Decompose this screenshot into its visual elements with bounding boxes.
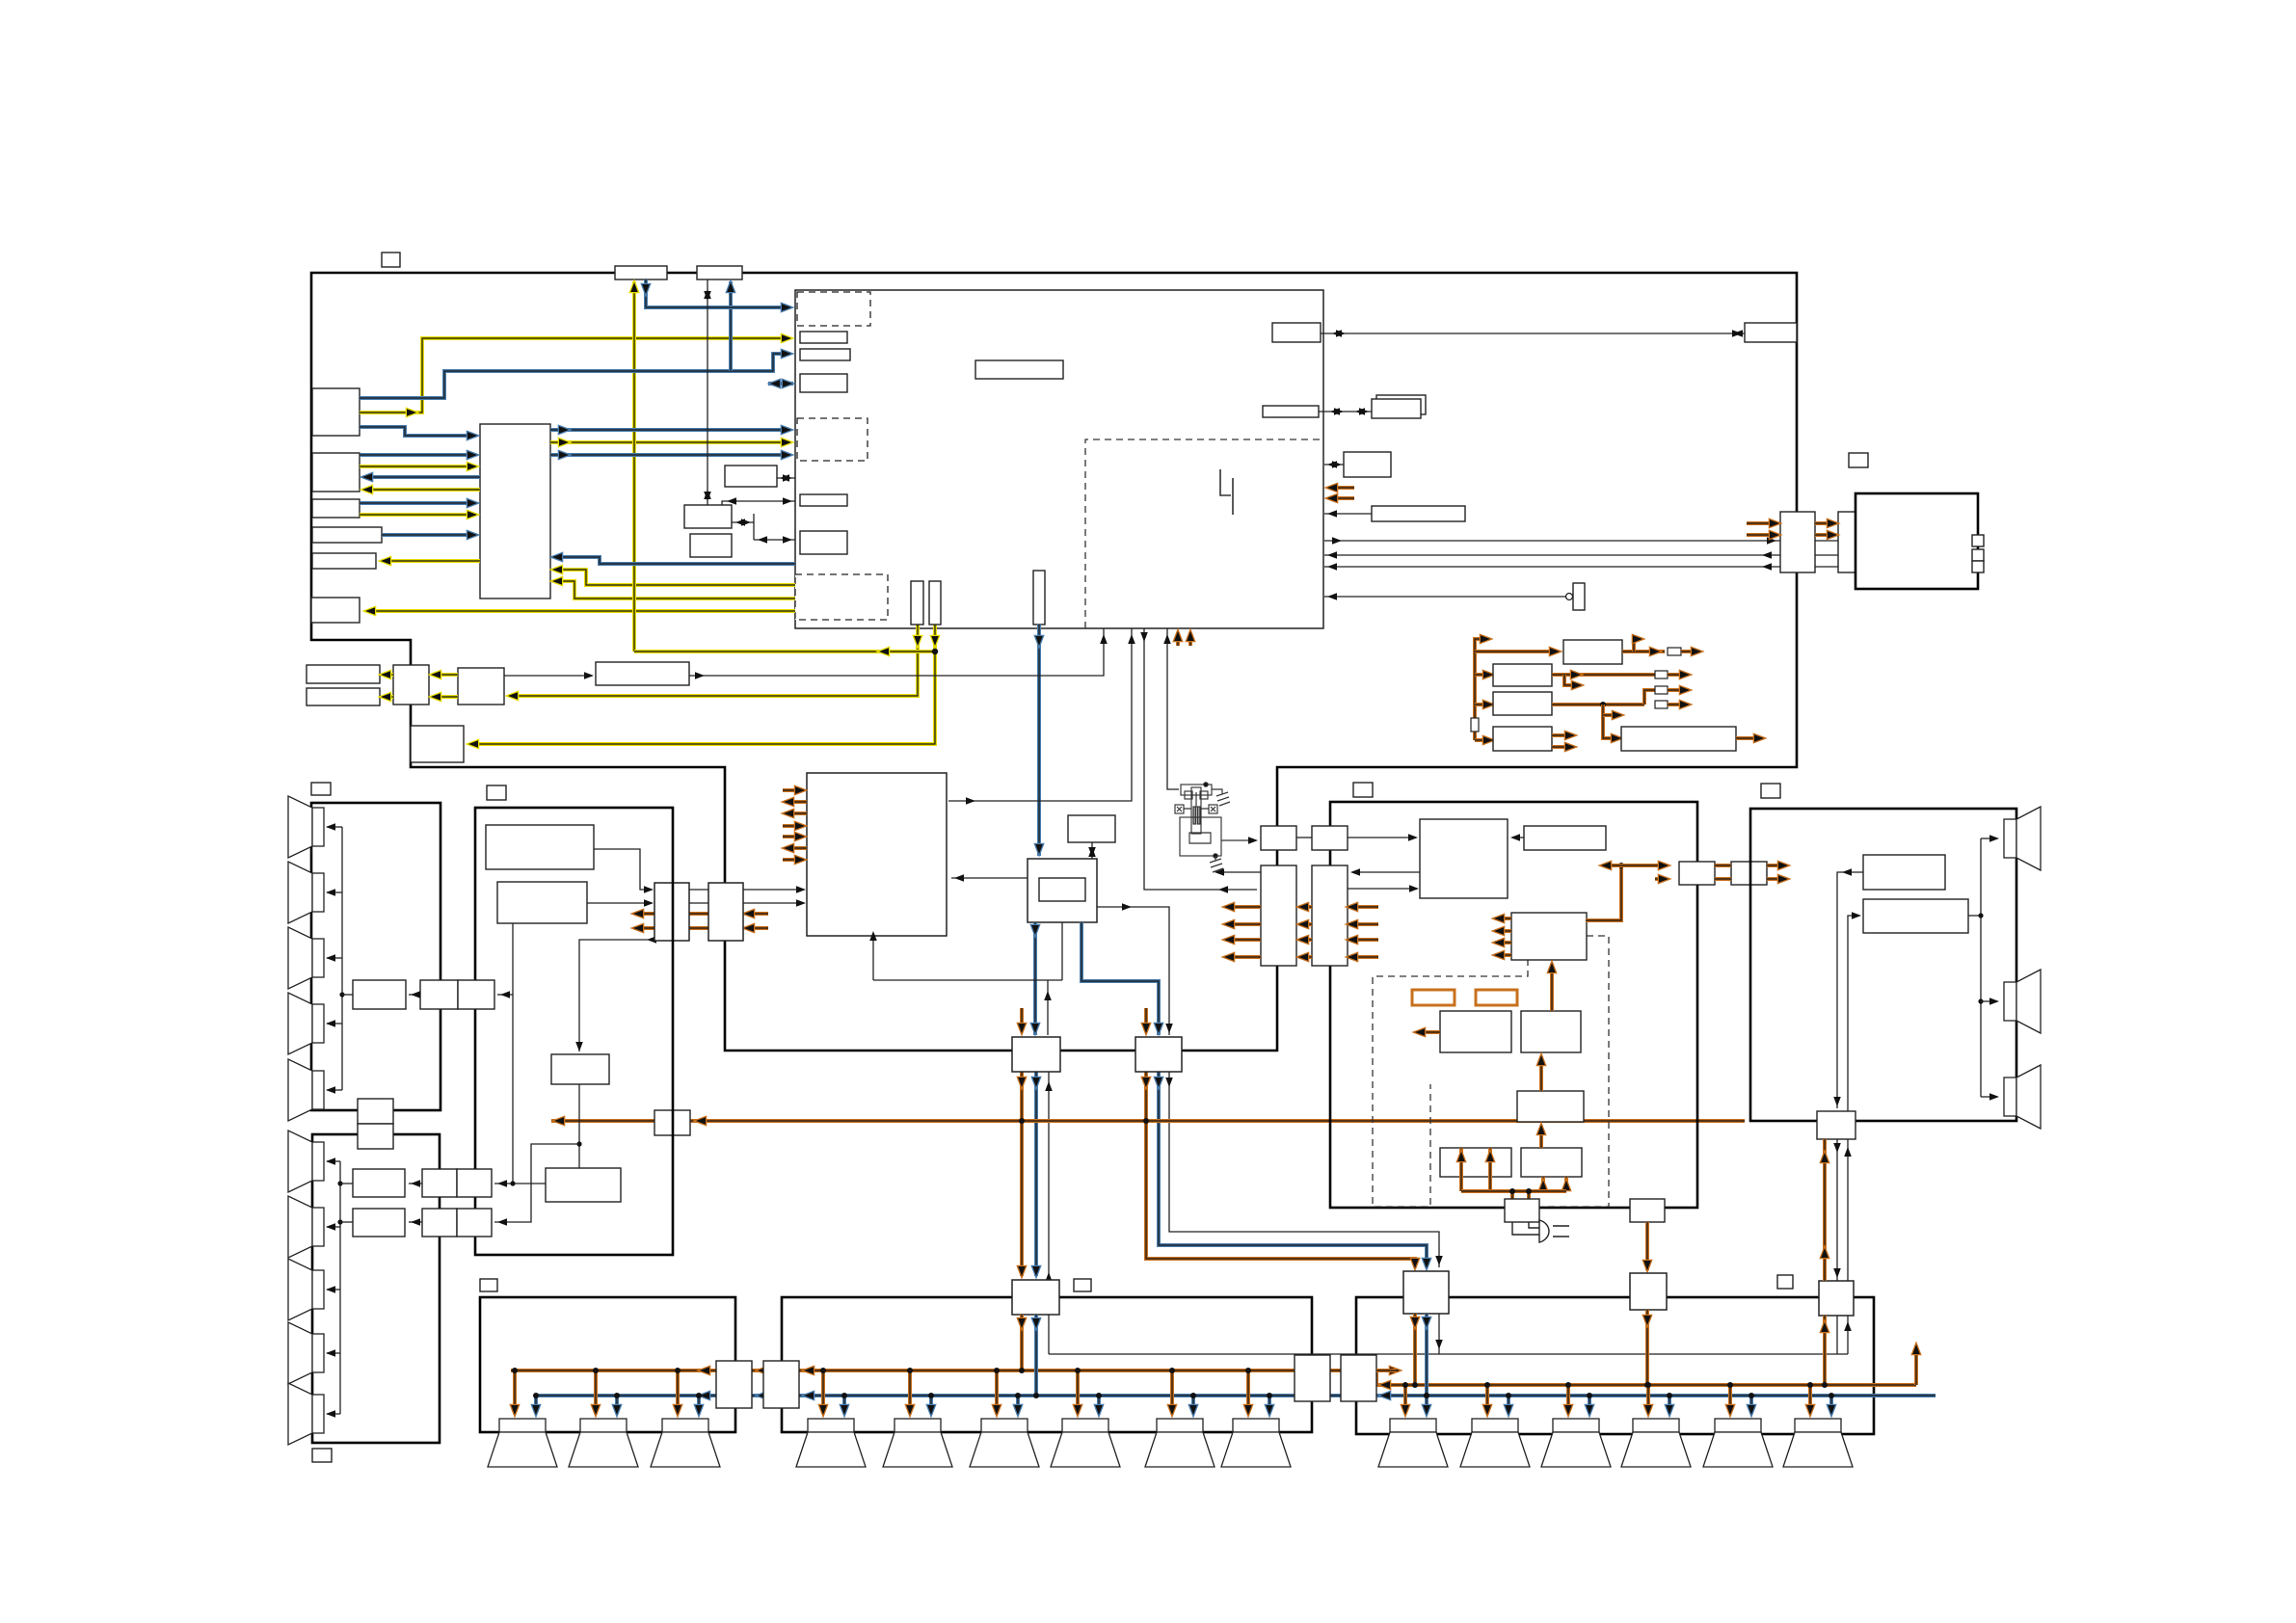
junction L1 x355: [339, 992, 344, 997]
arrow orange up S3C2: [1537, 1055, 1545, 1065]
section J outline (bottom center bank): [782, 1297, 1312, 1432]
orange stub DSP in y857: [783, 824, 803, 828]
speaker SP-F5 (left): [288, 1383, 324, 1445]
arrow yellow y459 a: [559, 439, 569, 446]
wire L2 tap 3: [327, 1289, 340, 1290]
blue drop SP-J3: [1016, 1396, 1020, 1413]
arrow blue into control box: [1035, 844, 1043, 854]
wire L1 feed vertical: [341, 827, 343, 1090]
orange PSU2 down stub: [1564, 675, 1579, 685]
arrow into LB1: [584, 672, 594, 679]
wire yellow U1c to U2 pin2: [554, 581, 795, 599]
speaker SP-J2: [883, 1419, 952, 1467]
arrow orange y506: [1327, 484, 1337, 492]
wire y561 CN-A to CN-B: [1815, 540, 1838, 542]
arrow into U1 y533: [1327, 510, 1337, 518]
wire U5 to U4 vertical: [1091, 842, 1093, 859]
junction bd SP-K4: [1667, 1393, 1672, 1398]
dashed sub-block U1c: [795, 574, 888, 620]
switch SW1 body: [1573, 583, 1585, 610]
wire MXB to DSP y937: [743, 902, 804, 904]
orange S3TB-S3TA y941: [1299, 905, 1312, 909]
orange branch up fuse: [1644, 690, 1655, 705]
orange stub DSP out y844: [787, 811, 807, 815]
arrow orange into S3TA y959: [1298, 920, 1308, 928]
junction box J-B: [458, 668, 504, 705]
section A outline (main board, merged with DSP bay): [311, 273, 1797, 1051]
wire T4 to JL2a: [494, 1183, 546, 1184]
wire to horn3: [1981, 1096, 1996, 1098]
arrow blue drop SP-J4: [1095, 1405, 1103, 1415]
arrow orange drop SP-J5: [1168, 1405, 1176, 1415]
arrow into BL2a: [411, 1180, 420, 1187]
orange CN-B out y543: [1873, 521, 1897, 525]
arrow orange S3TB in y941: [1348, 903, 1357, 911]
junction od SP-J4: [1075, 1368, 1081, 1373]
arrow yellow into OUT2: [381, 693, 390, 701]
junction od SP-I2: [593, 1368, 599, 1373]
arrow orange mux1 dn: [1018, 1078, 1026, 1087]
junction box J2 (bank border): [763, 1361, 799, 1408]
wire blue IN1 to U2 y452: [360, 427, 474, 436]
wire yellow J-A to OUT1: [384, 673, 393, 677]
speaker SP-J3: [970, 1419, 1039, 1467]
junction box J1 (bank border): [716, 1361, 752, 1408]
arrow PSU1 out mid: [1650, 648, 1660, 655]
arrow orange MXB i2: [744, 924, 754, 932]
orange stub S3C1 out: [1418, 1030, 1440, 1034]
arrow blue into U1 y367: [782, 350, 791, 358]
blue drop SP-J6: [1268, 1396, 1271, 1413]
orange PSU3 out: [1552, 703, 1644, 706]
section F label: [312, 1449, 332, 1462]
wire yellow U1 bottom conn1 to J-B: [510, 625, 918, 696]
orange PSU row4 feed: [1475, 738, 1490, 742]
orange drop SP-K6: [1808, 1385, 1812, 1413]
wire blue U2 to IN2 y495: [365, 475, 480, 479]
arrow blue mux1 dn: [1032, 1078, 1040, 1087]
arrow blue AMPC out: [1032, 1318, 1040, 1328]
blue mux1 to AMP-C: [1034, 1072, 1038, 1276]
arrow orange mux2 top: [1142, 1024, 1150, 1033]
arrow blue bidir left: [770, 380, 780, 387]
orange tree drop1: [1510, 1191, 1514, 1201]
arrow y482 l: [1327, 461, 1337, 468]
stacked box pair RTS: [1372, 399, 1421, 418]
regulator PSU4: [1493, 727, 1552, 751]
wire y561 CN-B to sq1: [1873, 540, 1968, 542]
orange tree drop2: [1527, 1191, 1531, 1201]
arrow orange drop SP-I2: [592, 1405, 600, 1415]
wire blue bidir stub y398: [768, 382, 793, 386]
junction bd SP-I1: [533, 1393, 539, 1398]
arrow U5-U4 dn: [1088, 847, 1096, 857]
junction bd SP-K2: [1506, 1393, 1511, 1398]
wire black amp bus y1405: [1049, 1353, 1848, 1355]
amp box AMP-R2: [1630, 1273, 1667, 1310]
connector CN-B1 on U1 bottom: [1033, 571, 1045, 625]
orange stub MXB in2: [746, 926, 768, 930]
arrow orange drop SP-K5: [1726, 1405, 1734, 1415]
arrow orange drop SP-J4: [1074, 1405, 1081, 1415]
orange AMP-R1 to bus: [1413, 1314, 1417, 1385]
arrow into S3B3 y922: [1409, 885, 1419, 892]
wire x532 to JL1: [497, 994, 513, 996]
connector CN-B: [1838, 512, 1873, 572]
wire yellow J-B to J-A y723: [434, 695, 458, 699]
section H outline: [1750, 809, 2016, 1121]
speaker SP-E2 (left): [288, 862, 324, 923]
section G outline: [1330, 802, 1697, 1208]
arrow down into mux2: [1165, 1024, 1173, 1033]
fuse F4: [1655, 701, 1668, 708]
junction od SP-K1: [1402, 1382, 1408, 1388]
speaker SP-F4 (left): [288, 1322, 324, 1384]
junction od SP-J6: [1245, 1368, 1251, 1373]
box S3B3: [1420, 819, 1508, 898]
arrow orange CN-C y912: [1659, 875, 1669, 883]
wire speaker column: [1980, 838, 1982, 1097]
junction spk col b: [1978, 998, 1983, 1003]
blue drop SP-K2: [1507, 1396, 1510, 1413]
orange PSU top stub: [1475, 639, 1487, 652]
arrow orange into CN-C: [1659, 862, 1669, 869]
speaker SP-F2 (left): [288, 1196, 324, 1258]
orange stub S3TB in y941: [1349, 905, 1378, 909]
arrow orange into S3TA y941: [1298, 903, 1308, 911]
speaker SP-E3 (left): [288, 927, 324, 989]
arrow orange mux2 dn: [1142, 1078, 1150, 1087]
arrow blue drop SP-J5: [1189, 1405, 1197, 1415]
arrow y561 b: [1767, 537, 1776, 545]
orange drop SP-K5: [1728, 1385, 1732, 1413]
blue drop SP-J2: [929, 1396, 933, 1413]
arrow orange DSP in y868: [795, 833, 805, 840]
arrow yellow conn1 down: [914, 636, 921, 646]
connector CN-Y2 on U1 bottom: [929, 581, 941, 625]
wire L2 tap 1: [327, 1160, 340, 1162]
box S3B2: [1312, 826, 1348, 850]
arrow bidir y346 right: [1733, 330, 1743, 337]
arrow into R2: [1852, 912, 1861, 919]
arrow PSU4 out2: [1565, 743, 1575, 751]
arrow black up AMPC: [1045, 1272, 1053, 1282]
wire blue IN1 to CN-T2 and U1: [360, 354, 788, 398]
arrow blue into mux2: [1155, 1024, 1162, 1033]
arrow orange S3B5 y978: [1494, 939, 1504, 946]
section B label: [1849, 453, 1868, 467]
wire blue U2 out to U1 y446: [550, 428, 788, 432]
orange S3C2 to S3B5: [1550, 964, 1554, 1011]
wire to horn2: [1981, 1000, 1996, 1002]
arrow bidir y346 left2: [1336, 330, 1346, 337]
arrow R1 out: [1842, 868, 1852, 876]
arrow into BL2b: [411, 1218, 420, 1226]
dashed boundary G2: [1542, 936, 1609, 1207]
arrow orange MXA o1: [633, 910, 643, 918]
arrow orange up x1235: [1187, 631, 1194, 641]
blue drop SP-K5: [1749, 1396, 1753, 1413]
dashed sub-block U1a: [797, 292, 870, 326]
arrow into PSU5: [1612, 734, 1621, 742]
orange after F4: [1668, 703, 1687, 706]
arrow orange DSP out y832: [784, 798, 793, 806]
orange speaker bus right: [1376, 1383, 1916, 1387]
blue drop SP-J1: [842, 1396, 846, 1413]
arrow orange AMPR2 out: [1643, 1316, 1651, 1325]
U1 internal box P6: [975, 360, 1063, 379]
wire L2 tap 5: [327, 1413, 340, 1415]
arrow orange S3B5 y991: [1494, 951, 1504, 959]
arrow into horn1: [1989, 835, 1999, 842]
arrow blue into U2 y578: [552, 553, 562, 561]
dashed boundary G1: [1373, 959, 1528, 1207]
orange stub DSP in y868: [783, 835, 803, 838]
section D label: [487, 785, 506, 800]
arrow blue down y668: [1035, 636, 1043, 646]
tuner box T3: [551, 1054, 609, 1084]
arrow into horn3: [1989, 1093, 1999, 1101]
connector CN-P1: [1505, 1199, 1539, 1222]
arrow up into U1 x1174: [1128, 634, 1135, 644]
speaker SP-K4: [1621, 1419, 1691, 1467]
speaker SP-K5: [1703, 1419, 1773, 1467]
junction spk col a: [1978, 913, 1983, 918]
orange stub to CN-A y555: [1747, 533, 1777, 537]
junction orange bus x1189: [1143, 1118, 1149, 1124]
wire T2 down x532: [512, 923, 514, 1184]
arrow orange CN-B y555: [1828, 531, 1837, 539]
orange CN-D out y898: [1767, 864, 1785, 867]
arrow into SP-F5: [326, 1410, 335, 1418]
orange PSU row1 feed: [1475, 650, 1557, 653]
arrow PSU top stub: [1481, 635, 1490, 643]
arrow yellow into U2 y534: [467, 511, 477, 519]
wire JL2a to BL2a: [409, 1183, 422, 1184]
arrow black AMPR3 up: [1844, 1147, 1852, 1157]
arrow orange S3TB in y993: [1348, 953, 1357, 961]
section H label: [1761, 784, 1780, 798]
wire R2 out to speaker col: [1968, 915, 1981, 917]
wire y561 U1 to CN-A: [1324, 540, 1780, 542]
wire L1 tap 2: [327, 891, 342, 893]
speaker SP-I2: [569, 1419, 638, 1467]
arrow into JL2a: [497, 1180, 507, 1187]
junction AMPR1 blue: [1424, 1393, 1429, 1398]
orange bus right end up: [1914, 1345, 1918, 1385]
box S3C1: [1440, 1011, 1511, 1052]
arrow down into CN-R: [1833, 1097, 1841, 1106]
junction od SP-J1: [820, 1368, 826, 1373]
junction od SP-K3: [1565, 1382, 1571, 1388]
arrow into MXA y923: [644, 886, 654, 893]
arrow into DSP y937: [796, 899, 806, 907]
orange S3TB-S3TA y959: [1299, 922, 1312, 926]
junction AMPC orange: [1019, 1368, 1025, 1373]
orange drop SP-I2: [594, 1370, 598, 1413]
arrow v734 up: [704, 289, 711, 299]
orange PSU4 out2: [1552, 745, 1572, 749]
orange drop SP-J1: [821, 1370, 825, 1413]
orange S3C4 feed b: [1488, 1148, 1492, 1191]
wire U1 bottom x1174 to DSP: [948, 628, 1132, 801]
wire MXA-MXB y937: [689, 902, 708, 904]
arrow into SP-E3: [326, 954, 335, 962]
arrow into SP-E4: [326, 1020, 335, 1027]
arrow orange into J4: [1380, 1381, 1390, 1389]
orange drop SP-I3: [676, 1370, 680, 1413]
wire black mux2 col: [1169, 1072, 1439, 1267]
arrow orange AMPR3 up a: [1821, 1153, 1829, 1162]
arrow bidir y346 right2: [1732, 330, 1742, 337]
fuse F2: [1655, 671, 1668, 678]
wire DSP bottom up: [872, 939, 874, 980]
arrow orange MXA o2: [633, 924, 643, 932]
speaker SP-K3: [1541, 1419, 1611, 1467]
arrow orange into AMP2: [1643, 1261, 1651, 1270]
speaker SP-I1: [488, 1419, 557, 1467]
orange PSU2 out: [1552, 673, 1655, 677]
orange stub to CN-C y912: [1655, 877, 1666, 881]
arrow orange S3TA out y959: [1224, 920, 1234, 928]
arrow into JL1: [500, 991, 510, 998]
amp box AMP-C: [1012, 1280, 1059, 1315]
arrow yellow into U2 y484: [467, 463, 477, 470]
wire blue U2 out to U1 y472: [550, 453, 788, 457]
wire DSP bottom net: [873, 979, 1062, 981]
arrow orange DSP in y857: [795, 822, 805, 830]
blue U4 to mux2: [1081, 922, 1159, 1035]
junction JL2b cell1: [422, 1209, 457, 1237]
arrow blue drop SP-J2: [927, 1405, 935, 1415]
mux box MX1: [1012, 1037, 1060, 1072]
arrow orange DSP out y844: [784, 810, 793, 817]
arrow up into DSP bottom: [869, 931, 877, 941]
arrow blue bus right of J2: [804, 1392, 814, 1399]
connector CN-T1 (top edge): [615, 266, 667, 279]
arrow orange into AMP-R1: [1411, 1259, 1419, 1268]
wire box RT3 to U1 y533: [1324, 513, 1372, 515]
wire to horn1: [1981, 838, 1996, 839]
tuner box T4: [546, 1168, 621, 1202]
wire connector col to R2: [1848, 916, 1859, 1111]
arrow orange up S3C3: [1537, 1125, 1545, 1134]
arrow into SP-E2: [326, 889, 335, 896]
arrow up into U1 x1211: [1163, 634, 1171, 644]
junction box J4 (bank border): [1341, 1355, 1376, 1401]
box S3C3: [1517, 1091, 1584, 1122]
wire R1 to connector col: [1837, 872, 1863, 1108]
arrow orange S3TA out y941: [1224, 903, 1234, 911]
box S3C5: [1521, 1148, 1582, 1177]
junction JL1 cell2: [458, 980, 494, 1009]
orange CN-A to CN-B y555: [1815, 533, 1835, 537]
arrow into SP-F1: [326, 1157, 335, 1165]
wire T2 to MX-A: [587, 902, 652, 904]
connector CN-R (section H bottom): [1817, 1111, 1855, 1139]
stub S3TA left y905: [1216, 871, 1261, 873]
arrow orange CN-B y543: [1828, 519, 1837, 527]
connector CN-P2: [1630, 1199, 1665, 1222]
wire BL1a left: [342, 994, 353, 996]
stacked box pair RTS shadow: [1376, 395, 1426, 414]
connector CN-C: [1679, 862, 1715, 885]
section B outline (right top): [1855, 493, 1978, 589]
link box L1-L2 cell1: [358, 1099, 393, 1124]
orange MXA-MXB y948: [689, 912, 708, 916]
blue speaker bus: [534, 1394, 1936, 1397]
orange box OB2: [1476, 990, 1517, 1005]
arrow yellow into J-A y700: [431, 671, 441, 678]
wire blue IN3 to U2 y522: [360, 501, 474, 505]
arrow into JL2b: [497, 1218, 507, 1226]
regulator PSU2: [1493, 664, 1552, 686]
orange bus y1163: [551, 1119, 1745, 1123]
mux box MX2: [1135, 1037, 1182, 1072]
orange drop SP-J4: [1076, 1370, 1080, 1413]
arrow orange up into S3B5: [1548, 963, 1556, 972]
box BL1a: [353, 980, 406, 1009]
wire BX2 to v782: [732, 521, 754, 523]
junction bd SP-K5: [1749, 1393, 1754, 1398]
speaker horn H3: [2004, 1065, 2041, 1129]
junction box J3 (bank border): [1295, 1355, 1330, 1401]
arrow blue drop SP-K1: [1423, 1405, 1430, 1415]
U1 curly glyph: [1220, 469, 1233, 515]
arrow y561 a: [1332, 537, 1342, 545]
section A label: [382, 253, 400, 267]
arrow into DSP y923: [796, 886, 806, 893]
wire yellow riser to CN-T1: [632, 281, 636, 652]
arrow orange AMPR3 from bus: [1821, 1322, 1829, 1332]
arrow orange CN-A y543: [1770, 519, 1779, 527]
orange stub to CN-A y543: [1747, 521, 1777, 525]
orange stub DSP out y832: [787, 800, 807, 804]
arrow y619: [1327, 593, 1337, 600]
control box U4 inner: [1039, 878, 1085, 901]
orange CN-C to CN-D y912: [1715, 877, 1731, 881]
wire JL1 to BL1a: [409, 994, 420, 996]
junction od SP-K4: [1645, 1382, 1651, 1388]
arrow y427 l2: [1334, 408, 1344, 415]
U1 port box P7 (right): [1272, 323, 1321, 342]
orange bus jog in J4: [1369, 1370, 1376, 1385]
arrow yellow into U2 y591: [552, 566, 562, 573]
output box OUT1: [307, 665, 380, 683]
section I label: [480, 1279, 497, 1291]
junction tree b: [1526, 1188, 1532, 1194]
junction od SP-J3: [994, 1368, 1000, 1373]
arrow blue y472 a: [559, 451, 569, 459]
arrow orange CN-A y555: [1770, 531, 1779, 539]
section D outline (tuner): [475, 808, 673, 1255]
switch SW1 circle: [1566, 594, 1573, 600]
arrow yellow into OUT1: [381, 671, 390, 678]
orange S3TB-S3TA y993: [1299, 955, 1312, 959]
blue drop SP-J5: [1191, 1396, 1195, 1413]
orange CN-C to CN-D y898: [1715, 864, 1731, 867]
arrow U5-U4 up: [1088, 847, 1096, 857]
arrow yellow into J-A y723: [431, 693, 441, 701]
arrow into horn2: [1989, 998, 1999, 1005]
wire S3B4 to S3B3: [1512, 837, 1524, 838]
orange stub S3TA out y941: [1227, 905, 1261, 909]
arrow orange into AMP-C: [1018, 1266, 1026, 1276]
junction bd SP-J2: [928, 1393, 934, 1398]
orange stub y742: [1603, 713, 1619, 717]
arrow blue into U2 y452: [467, 432, 477, 439]
dashed sub-block U1b: [797, 418, 868, 461]
